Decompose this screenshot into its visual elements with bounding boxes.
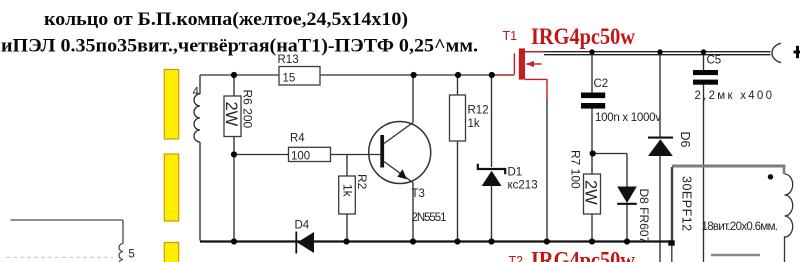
svg-text:IRG4pc50w: IRG4pc50w <box>531 24 635 49</box>
svg-text:D4: D4 <box>295 220 310 232</box>
svg-text:R7 100: R7 100 <box>569 150 583 189</box>
svg-text:R13: R13 <box>278 54 299 66</box>
svg-text:кольцо от Б.П.компа(желтое,24,: кольцо от Б.П.компа(желтое,24,5х14х10) <box>44 10 408 30</box>
svg-text:4: 4 <box>193 87 200 99</box>
svg-text:100: 100 <box>291 151 310 163</box>
svg-text:18вит.20х0.6мм.: 18вит.20х0.6мм. <box>702 221 779 233</box>
svg-text:R6 200: R6 200 <box>241 90 255 129</box>
svg-text:1k: 1k <box>341 184 355 198</box>
svg-text:T1: T1 <box>503 29 518 43</box>
svg-text:R4: R4 <box>290 133 305 145</box>
svg-text:1k: 1k <box>468 118 480 130</box>
svg-text:иПЭЛ 0.35по35вит.,четвёртая(на: иПЭЛ 0.35по35вит.,четвёртая(наТ1)-ПЭТФ 0… <box>1 36 478 56</box>
svg-text:2N5551: 2N5551 <box>412 212 447 224</box>
svg-text:30EPF12: 30EPF12 <box>680 176 694 232</box>
svg-text:R12: R12 <box>468 105 489 117</box>
svg-text:T2: T2 <box>509 254 524 262</box>
svg-text:IRG4pc50w: IRG4pc50w <box>531 248 635 262</box>
svg-text:C2: C2 <box>594 78 609 90</box>
svg-text:2W: 2W <box>222 102 240 127</box>
svg-text:R2: R2 <box>355 174 369 190</box>
svg-text:C5: C5 <box>707 55 722 67</box>
svg-text:D1: D1 <box>508 167 523 179</box>
svg-text:100n x 1000v: 100n x 1000v <box>595 112 661 124</box>
svg-text:D8 FR607: D8 FR607 <box>637 189 651 244</box>
svg-text:2W: 2W <box>582 180 600 205</box>
svg-text:15: 15 <box>283 73 296 85</box>
svg-text:T3: T3 <box>412 188 425 200</box>
svg-text:5: 5 <box>128 249 134 261</box>
svg-text:кс213: кс213 <box>508 180 538 192</box>
svg-text:D6: D6 <box>678 132 692 148</box>
